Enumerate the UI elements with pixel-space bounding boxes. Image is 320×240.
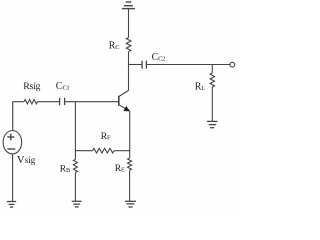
wire RF left (from RB column) xyxy=(75,150,92,152)
capacitor CC1 xyxy=(60,98,65,106)
resistor RF xyxy=(93,148,115,153)
source Vsig xyxy=(3,131,22,154)
wire collector node down to transistor collector xyxy=(128,65,130,91)
resistor RL xyxy=(210,73,214,87)
svg-text:C1: C1 xyxy=(63,85,70,92)
wire RL to ground xyxy=(211,87,213,121)
wire Vsig to ground xyxy=(12,154,14,202)
ground (below RL) xyxy=(207,121,218,127)
svg-text:Rsig: Rsig xyxy=(23,81,40,92)
wire collector node to CC2 xyxy=(129,64,143,66)
node collector junction xyxy=(128,64,129,65)
svg-text:Vsig: Vsig xyxy=(17,154,36,166)
wire base node down to RB xyxy=(74,102,76,160)
ground (below Vsig) xyxy=(7,202,16,208)
svg-text:C2: C2 xyxy=(158,56,165,63)
node RF-emitter junction xyxy=(129,150,130,151)
wire left corner to Rsig xyxy=(13,102,24,131)
wire CC2 to output terminal xyxy=(146,64,230,66)
output terminal xyxy=(230,62,235,67)
wire emitter down to RE xyxy=(129,111,131,158)
wire RE to ground xyxy=(129,170,131,201)
capacitor CC2 xyxy=(142,61,146,69)
resistor Rsig xyxy=(24,100,38,104)
ground (below RE) xyxy=(125,201,136,207)
svg-text:B: B xyxy=(66,167,70,174)
wire base to transistor xyxy=(65,101,119,103)
ground (below RB) xyxy=(72,201,82,207)
wire output wire to RL xyxy=(211,65,213,74)
resistor RB xyxy=(73,159,77,172)
resistor RE xyxy=(128,158,132,170)
svg-text:C: C xyxy=(115,44,119,51)
svg-text:L: L xyxy=(201,85,205,92)
wire top-ground to RC xyxy=(128,9,130,38)
ground (top supply reference) xyxy=(122,2,135,9)
svg-text:E: E xyxy=(121,167,125,174)
node base branch junction xyxy=(75,101,76,102)
resistor RC xyxy=(126,38,131,52)
wire RB to ground xyxy=(74,172,76,201)
svg-text:F: F xyxy=(107,135,111,142)
wire RF right to emitter column xyxy=(114,150,130,152)
wire RC to collector node xyxy=(128,52,130,65)
transistor Q1 xyxy=(119,91,130,112)
wire Rsig to CC1 xyxy=(38,101,60,103)
node RL top junction xyxy=(212,64,213,65)
